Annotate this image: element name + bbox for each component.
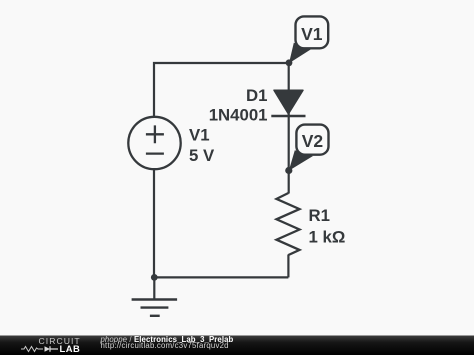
footer title text [100, 335, 234, 350]
footer bar [0, 336, 474, 355]
svg-text:D1: D1 [246, 86, 267, 105]
svg-text:R1: R1 [309, 206, 330, 225]
svg-text:V1: V1 [189, 126, 210, 145]
svg-text:5 V: 5 V [189, 146, 215, 165]
svg-text:1N4001: 1N4001 [209, 106, 268, 125]
footer CircuitLab logo [21, 336, 81, 354]
wire bottom from resistor to junction [154, 276, 288, 278]
wire top from source to diode branch [154, 63, 289, 277]
svg-text:V2: V2 [302, 131, 324, 151]
voltage source V1 [128, 117, 215, 169]
node V2 junction dot [285, 167, 292, 174]
node V1 flag [289, 16, 328, 63]
node V2 flag [289, 125, 329, 171]
svg-text:http://circuitlab.com/c3v75far: http://circuitlab.com/c3v75farquv2d [101, 341, 229, 350]
svg-text:V1: V1 [301, 24, 323, 44]
wire right branch lower (resistor bottom to bottom wire) [287, 255, 289, 278]
svg-text:LAB: LAB [60, 343, 81, 354]
svg-text:1 kΩ: 1 kΩ [309, 228, 346, 247]
diode D1 [209, 86, 306, 125]
wire right branch upper (through diode to resistor top) [288, 63, 290, 194]
ground [132, 277, 178, 316]
node V1 junction dot [286, 59, 293, 66]
ground junction dot [151, 274, 158, 281]
resistor R1 [277, 193, 346, 255]
